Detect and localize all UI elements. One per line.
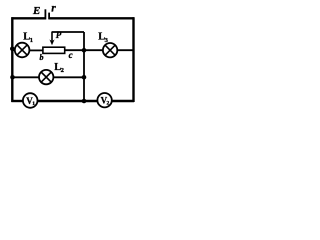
wire bottom right segment <box>112 100 135 102</box>
label L2 <box>54 62 64 74</box>
node middle vertical bottom <box>82 99 87 104</box>
wire middle vertical <box>83 32 85 101</box>
label L1 <box>23 31 33 43</box>
label P <box>56 30 62 40</box>
node middle vertical row2 <box>82 75 87 80</box>
svg-text:1: 1 <box>30 37 33 44</box>
wire from L3 to right edge <box>117 49 134 51</box>
terminal label c <box>69 50 73 60</box>
terminal label b <box>40 53 44 62</box>
svg-text:E: E <box>32 5 40 17</box>
wire from rheostat to lamp L3 <box>65 49 103 51</box>
node left edge row1 <box>10 46 15 51</box>
lamp L2 <box>39 70 53 84</box>
wire row2 from left edge to lamp L2 <box>12 76 39 78</box>
svg-text:2: 2 <box>61 67 64 74</box>
wire top left segment <box>11 17 45 19</box>
battery E with internal resistance r <box>45 9 49 19</box>
label L3 <box>98 32 108 44</box>
svg-text:1: 1 <box>32 101 35 107</box>
wire top right segment <box>49 17 134 19</box>
node middle vertical row1 <box>82 48 87 53</box>
svg-text:2: 2 <box>107 101 110 107</box>
wire left edge <box>11 17 13 102</box>
voltmeter V2 <box>97 93 111 107</box>
lamp L1 <box>15 43 30 58</box>
wire row1 stub from left edge to lamp L1 <box>12 49 15 51</box>
wire right edge <box>132 17 134 102</box>
lamp L3 <box>103 43 117 57</box>
wire from slider up and right <box>52 31 84 33</box>
svg-text:c: c <box>69 50 73 60</box>
wire bottom left segment <box>11 100 23 102</box>
wire from L1 to rheostat <box>29 49 42 51</box>
voltmeter V1 <box>23 93 38 108</box>
svg-text:r: r <box>51 2 56 14</box>
slider arrow P <box>49 32 54 46</box>
label r <box>51 2 56 14</box>
wire bottom middle segment <box>37 100 98 102</box>
wire from L2 to middle vertical <box>53 76 84 78</box>
rheostat box bc <box>43 47 65 53</box>
label E <box>32 5 40 17</box>
node left edge row2 <box>10 75 15 80</box>
svg-text:b: b <box>40 53 44 62</box>
